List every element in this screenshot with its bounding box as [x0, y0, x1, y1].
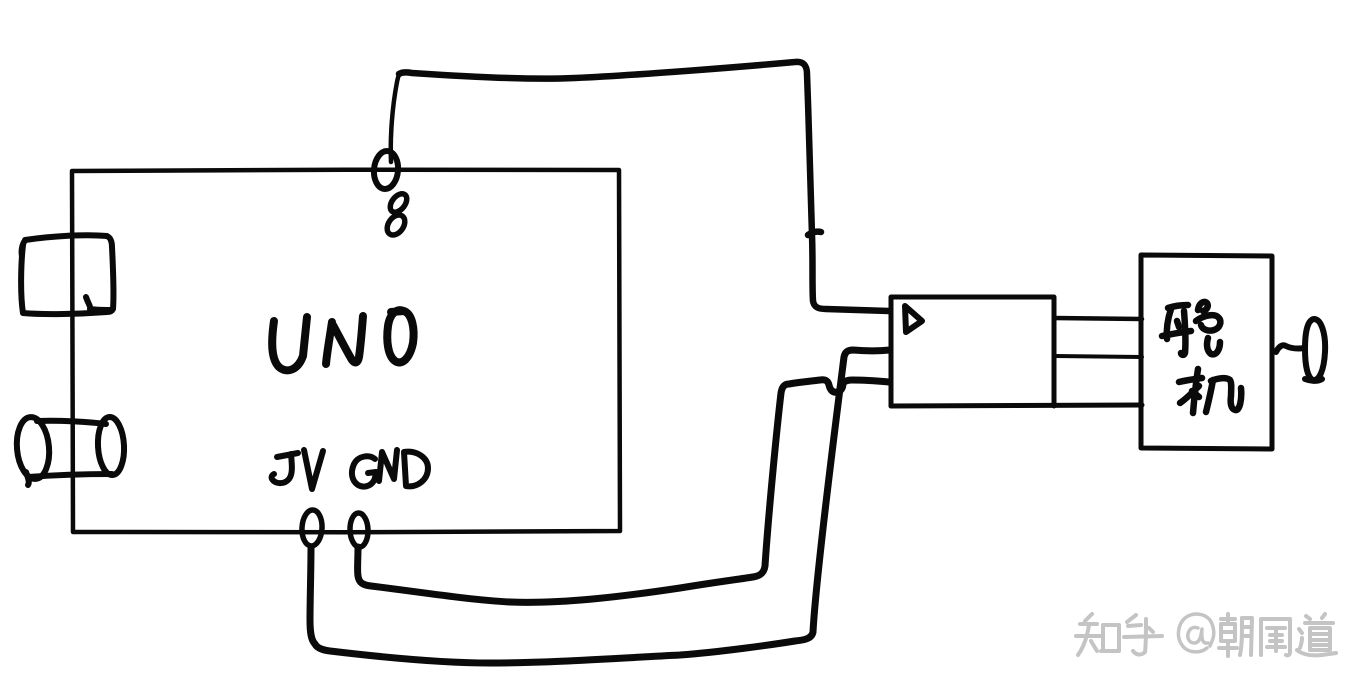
wire: J3 to servo (middle): [1054, 356, 1142, 357]
UNO board U1 box: [72, 170, 620, 533]
servo connector J3 box (bottom edge extends to servo): [891, 297, 1142, 406]
wire: J3 to servo (top): [1054, 318, 1142, 319]
label 机 (servo, char 2): [1179, 369, 1241, 413]
闻: [1259, 620, 1263, 655]
朝: [1221, 617, 1235, 621]
pin number label 8: [384, 191, 411, 239]
pin label 5V: [272, 450, 323, 489]
servo output shaft and horn: [1276, 345, 1305, 352]
watermark text 知乎 @朝闻道: [1076, 614, 1336, 656]
wire: 5V pin to J3 middle pin: [310, 350, 890, 663]
polarity triangle marker on J3: [905, 306, 922, 332]
pin label GND: [352, 450, 428, 487]
USB connector J1: [21, 235, 113, 314]
label 舵 (servo, char 1): [1162, 302, 1220, 355]
pin 8 (oval pad): [372, 150, 399, 190]
@: [1178, 614, 1213, 652]
label UNO: [272, 310, 413, 370]
servo M1 box: [1141, 255, 1272, 449]
知: [1085, 614, 1092, 621]
pin GND (oval pad): [349, 513, 368, 548]
wire: GND pin to J3 bottom pin (with hop over 5V wire): [358, 380, 889, 603]
道: [1306, 616, 1310, 619]
乎: [1127, 615, 1136, 622]
wire: pin 8 to connector signal pin (with lead-in and nub): [391, 73, 400, 162]
power jack J2 (barrel): [14, 416, 125, 485]
pin 5V (oval pad): [301, 510, 323, 547]
